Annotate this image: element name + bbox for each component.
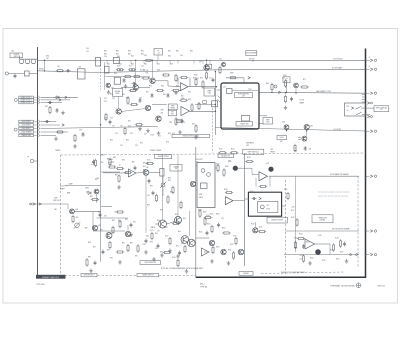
svg-text:R90: R90 (150, 242, 153, 244)
svg-text:R95: R95 (143, 170, 146, 172)
svg-text:C62: C62 (219, 59, 222, 61)
svg-text:R40: R40 (119, 64, 122, 66)
svg-text:R95: R95 (168, 178, 171, 180)
svg-text:R87: R87 (88, 257, 91, 259)
svg-text:R90: R90 (176, 246, 179, 248)
wire q110 out (238, 167, 252, 169)
svg-text:R56: R56 (166, 142, 169, 144)
capacitor C155 (206, 231, 209, 236)
connector arrow sw a (367, 102, 369, 105)
svg-text:270K: 270K (181, 98, 184, 100)
svg-text:C31: C31 (57, 66, 60, 68)
resistor R173 (199, 209, 201, 217)
wire miller vertical net (100, 97, 102, 262)
pin bus 131.2 (374, 130, 376, 132)
ground (194, 135, 198, 139)
transistor Q46 (116, 109, 121, 114)
resistor R71 (284, 79, 286, 87)
svg-text:3-12: 3-12 (86, 51, 89, 53)
svg-text:R95: R95 (165, 227, 168, 229)
capacitor C120 (302, 244, 305, 249)
svg-text:C45: C45 (209, 78, 212, 80)
net label box supply4 (19, 130, 34, 133)
svg-text:R104: R104 (228, 250, 232, 252)
svg-text:+12V: +12V (299, 255, 302, 257)
svg-text:C55: C55 (135, 145, 138, 147)
wire stub (209, 60, 211, 63)
junction bus (365, 230, 367, 232)
resistor R101 (218, 152, 226, 154)
ground (160, 253, 164, 257)
svg-text:R123: R123 (335, 238, 339, 240)
svg-text:C90: C90 (221, 218, 224, 220)
transistor Q47 (145, 105, 150, 110)
resistor R176b (175, 117, 177, 125)
svg-text:SWP TIMING SW: SWP TIMING SW (145, 262, 157, 264)
svg-text:Q85: Q85 (75, 209, 78, 211)
resistor R180 (163, 251, 171, 253)
wire q70 emitter (295, 88, 297, 93)
wire pin stub (366, 92, 370, 94)
resistor R105 (211, 225, 213, 233)
svg-text:TYPE 3B4: TYPE 3B4 (36, 284, 44, 286)
svg-text:INPUT: INPUT (14, 56, 19, 58)
svg-text:SWEEP: SWEEP (243, 273, 248, 275)
svg-text:C97: C97 (157, 231, 160, 233)
wire gnd row (41, 135, 57, 137)
capacitor C85 (92, 160, 95, 165)
resistor R121 (294, 241, 296, 249)
wire EXT HORIZ net (38, 59, 366, 61)
svg-text:R95: R95 (183, 218, 186, 220)
pin trig (30, 203, 32, 205)
wire sweep no.1 (41, 96, 79, 98)
svg-text:R40: R40 (116, 54, 119, 56)
svg-text:R104: R104 (204, 252, 208, 254)
svg-text:R91: R91 (122, 243, 125, 245)
wire stub (202, 60, 204, 63)
op-amp U45 (181, 107, 190, 116)
diode CR35 (56, 96, 59, 99)
svg-text:MANUALSLIB COM ENGINE: MANUALSLIB COM ENGINE (318, 195, 348, 198)
svg-text:R68: R68 (266, 83, 269, 85)
junction w2c (143, 69, 144, 70)
resistor R57 (135, 124, 143, 126)
capacitor C89 (102, 250, 105, 255)
svg-text:C95: C95 (147, 195, 150, 197)
svg-text:R87: R87 (115, 175, 118, 177)
test point box TP45 (206, 64, 212, 68)
pin sw b (371, 116, 373, 118)
resistor R178 (119, 220, 121, 228)
svg-text:R107: R107 (230, 244, 234, 246)
wire u45 out (190, 110, 216, 112)
wire label stub c2 (34, 124, 37, 126)
wire gate return (66, 184, 101, 186)
wire q87 base feed (92, 211, 94, 230)
transistor Q85b (302, 136, 307, 141)
svg-text:5K: 5K (347, 110, 349, 112)
capacitor C45 (212, 78, 215, 83)
connector arrow pin (370, 92, 372, 95)
svg-text:PICK: PICK (267, 208, 271, 210)
transistor Q50 (222, 63, 226, 67)
svg-text:HOLDOFF: HOLDOFF (334, 129, 341, 131)
resistor R63 (229, 77, 237, 79)
connector arrow sw b (367, 115, 369, 118)
capacitor C156 (151, 93, 154, 98)
resistor R107 (232, 251, 234, 259)
resistor R50 feedback (180, 76, 188, 78)
svg-text:R95: R95 (150, 186, 153, 188)
svg-text:R117: R117 (291, 210, 295, 212)
svg-text:SWEEP TIMING: SWEEP TIMING (158, 156, 170, 158)
net label box supply1 (19, 120, 34, 123)
label box horiz display (374, 106, 389, 112)
wire dashed boundary bottom b (98, 275, 138, 277)
svg-text:TIMING SW: TIMING SW (240, 123, 249, 125)
label box integrating (235, 93, 253, 98)
wire u85 out (136, 172, 143, 175)
junction w2a (119, 69, 120, 70)
wire fb2 a (255, 178, 257, 187)
label box sweep timing (155, 155, 172, 159)
module box SWEEP GATE (197, 163, 215, 208)
svg-text:1K: 1K (119, 165, 121, 167)
wire dashed amp boundary left (285, 180, 287, 274)
svg-text:R120: R120 (310, 258, 314, 260)
resistor R103 (225, 191, 233, 193)
svg-text:R40: R40 (117, 56, 120, 58)
svg-text:TP: TP (285, 78, 287, 80)
svg-text:R90: R90 (135, 256, 138, 258)
transistor V95b tube (188, 239, 196, 247)
svg-text:R40: R40 (168, 51, 171, 53)
resistor R153 (124, 171, 132, 173)
hook arrows group C (38, 120, 39, 137)
resistor R90 (116, 251, 124, 253)
svg-text:47K: 47K (104, 216, 107, 218)
op-amp U40 (180, 83, 188, 91)
svg-text:Q110: Q110 (228, 161, 232, 163)
svg-text:R95: R95 (178, 231, 181, 233)
wire stub (169, 60, 171, 63)
resistor R118 (296, 218, 298, 226)
hook arrows group B (38, 96, 39, 104)
svg-text:R40: R40 (176, 51, 179, 53)
svg-text:C55: C55 (120, 126, 123, 128)
resistor R47 (133, 76, 141, 78)
transistor Q42 (106, 83, 110, 87)
svg-text:R90: R90 (98, 212, 101, 214)
resistor R154 (118, 174, 120, 182)
ground (176, 254, 180, 258)
svg-text:R174: R174 (210, 214, 214, 216)
attenuator box AT31 (78, 69, 86, 79)
svg-text:C55: C55 (112, 126, 115, 128)
svg-text:TP: TP (294, 148, 296, 150)
junction wire2 corner (215, 71, 216, 72)
ground (168, 249, 172, 253)
label box timing sw (236, 122, 253, 127)
pin circle group C (14, 128, 17, 131)
resistor R106 (222, 232, 230, 234)
resistor box R45 (114, 77, 120, 84)
svg-text:+100V SUPPLY: +100V SUPPLY (21, 121, 31, 123)
label box swp gen (243, 149, 264, 154)
svg-text:J30: J30 (11, 51, 14, 53)
svg-text:C80: C80 (101, 162, 104, 164)
transistor V96 tube (175, 217, 182, 224)
junction J15 (286, 130, 287, 131)
junction J1 (44, 60, 45, 61)
wire to v95 (155, 223, 158, 225)
transistor Q121 (238, 249, 244, 255)
svg-text:R95: R95 (155, 233, 158, 235)
net label box SWEEP NO.2 (19, 99, 34, 102)
ground (210, 259, 214, 263)
svg-text:R40: R40 (190, 51, 193, 53)
wire dashed boundary left (60, 155, 62, 276)
transistor Q83 (284, 125, 289, 130)
capacitor C36 (56, 108, 59, 113)
wire dashed input boundary (100, 58, 102, 90)
resistor R172 (169, 237, 171, 245)
svg-text:R87: R87 (107, 250, 110, 252)
op-amp U90 (225, 197, 233, 205)
wire q43 base (121, 86, 133, 88)
pin out a (350, 254, 352, 256)
svg-text:SRS 564: SRS 564 (378, 285, 385, 287)
ground (227, 261, 231, 265)
pin bus 60.3 (374, 59, 376, 61)
resistor R32 (56, 70, 64, 72)
svg-text:R120: R120 (340, 252, 344, 254)
capacitor C39 (82, 132, 85, 137)
wire tp stem b (157, 55, 159, 60)
svg-text:R55: R55 (126, 98, 129, 100)
wire FAST RAMP to CRT (260, 91, 366, 94)
wire into u110 (252, 173, 259, 175)
wire label stub c3 (34, 128, 37, 130)
trimmer box C40 (96, 58, 101, 67)
wire pin stub (366, 130, 370, 132)
resistor R162 (156, 89, 164, 91)
svg-text:R104: R104 (216, 247, 220, 249)
svg-text:R85: R85 (110, 159, 113, 161)
ground (157, 131, 161, 135)
junction J2 (44, 70, 45, 71)
svg-text:Q45: Q45 (199, 61, 202, 63)
wire dashed amp boundary right (357, 176, 359, 268)
svg-text:SW30: SW30 (39, 69, 44, 71)
svg-text:U120: U120 (318, 235, 322, 237)
switch label box SW45a (168, 104, 177, 110)
svg-text:R120: R120 (294, 248, 298, 250)
svg-text:R87: R87 (85, 228, 88, 230)
wire +100V (41, 121, 57, 123)
transistor Q70 (294, 83, 299, 88)
attenuator box AT30 (25, 71, 30, 76)
svg-text:Q87: Q87 (98, 225, 101, 227)
svg-text:R56: R56 (188, 92, 191, 94)
wire gate vertical net (214, 72, 216, 136)
wire -150V long (41, 127, 159, 129)
label box holdoff (277, 135, 287, 139)
wire to opamp (168, 85, 180, 88)
svg-text:HOLDOFF: HOLDOFF (60, 186, 67, 188)
resistor R166 (202, 80, 204, 88)
resistor R179 (137, 244, 139, 252)
wire dly stub a (245, 198, 249, 200)
relay box K45 (212, 101, 218, 107)
svg-text:R104: R104 (203, 212, 207, 214)
neon box B67 (242, 116, 250, 122)
wire q45 collector (206, 60, 208, 65)
wire fb right (189, 78, 191, 87)
wire q88 stub (127, 225, 129, 231)
svg-text:Q84: Q84 (310, 125, 313, 127)
svg-text:R90: R90 (110, 258, 113, 260)
junction bus (365, 60, 367, 62)
resistor R164 (195, 124, 197, 132)
resistor R125 (235, 237, 237, 245)
label box swp len (263, 118, 273, 125)
resistor R59 (198, 102, 200, 110)
capacitor box C58 (203, 101, 207, 104)
wire miller out b (260, 115, 268, 117)
connector arrow trig b (39, 203, 41, 206)
svg-text:R87: R87 (90, 196, 93, 198)
svg-text:R170: R170 (147, 160, 151, 162)
capacitor C158 (145, 239, 148, 244)
potentiometer R96 (160, 182, 166, 188)
svg-text:R47: R47 (140, 70, 143, 72)
svg-text:R58: R58 (181, 96, 184, 98)
ground (61, 111, 65, 115)
wire 6.3VAC (41, 131, 69, 133)
resistor R52 (205, 71, 207, 79)
svg-text:R40: R40 (170, 64, 173, 66)
wire dashed boundary bottom c (159, 275, 196, 277)
capacitor C92 (94, 261, 97, 266)
svg-text:R87: R87 (107, 159, 110, 161)
ground (185, 269, 189, 273)
svg-text:SWP: SWP (199, 194, 202, 196)
transistor Q108 (253, 228, 258, 233)
wire u90 out (233, 200, 245, 202)
svg-text:R93: R93 (76, 217, 79, 219)
resistor R160 (172, 222, 180, 224)
svg-text:SWP: SWP (266, 119, 270, 121)
wire q95 feed (189, 211, 191, 236)
svg-text:R40: R40 (128, 51, 131, 53)
resistor R48 (162, 74, 170, 76)
capacitor C31 (66, 69, 71, 72)
capacitor C178 (130, 223, 133, 228)
resistor R168 (223, 168, 225, 176)
resistor R169 (108, 166, 116, 168)
svg-text:+100V: +100V (91, 164, 95, 166)
svg-text:R57: R57 (128, 121, 131, 123)
transistor Q110 (filled) (233, 166, 238, 171)
svg-text:R126: R126 (259, 227, 263, 229)
transistor Q90 (209, 240, 214, 245)
connector arrow pin (370, 59, 372, 62)
resistor R111 feedback (259, 185, 267, 187)
svg-text:R56: R56 (200, 78, 203, 80)
svg-text:R40: R40 (122, 94, 125, 96)
transistor Q48 (156, 116, 161, 121)
svg-text:C55: C55 (172, 133, 175, 135)
capacitor C38 (45, 120, 50, 123)
svg-text:TIMING SWITCH: TIMING SWITCH (142, 275, 154, 277)
connector arrow +225 (62, 124, 64, 127)
svg-text:C84: C84 (309, 148, 312, 150)
resistor R171 (151, 232, 153, 240)
svg-text:R104: R104 (199, 232, 203, 234)
wire center vertical net (195, 147, 197, 277)
resistor R120 (297, 237, 305, 239)
module box MILLER INTEGRATOR (221, 83, 259, 129)
capacitor C115 (252, 197, 257, 200)
wire tp stub (34, 160, 38, 162)
net label box supply3 (19, 127, 34, 130)
wire box stub a (196, 165, 197, 167)
svg-text:C55: C55 (158, 136, 161, 138)
net left boundary line (37, 47, 39, 275)
transistor Q44 (150, 78, 155, 83)
svg-text:C55: C55 (139, 98, 142, 100)
wire miller in (217, 89, 222, 91)
ground (124, 84, 128, 88)
svg-text:SWP GEN NO.1: SWP GEN NO.1 (84, 275, 95, 277)
wire miller out c (260, 123, 264, 125)
svg-text:R40: R40 (157, 64, 160, 66)
svg-text:R120: R120 (306, 242, 310, 244)
transistor Q87 (92, 225, 97, 230)
svg-text:R45: R45 (114, 73, 117, 75)
resistor R157 (116, 211, 124, 213)
transistor Q88 (125, 231, 130, 236)
svg-text:R52: R52 (196, 78, 199, 80)
ground (118, 260, 122, 264)
junction J8 (215, 111, 216, 112)
svg-text:C55: C55 (104, 118, 107, 120)
ground (89, 269, 93, 273)
resistor R98 (167, 195, 169, 203)
svg-text:R87: R87 (130, 243, 133, 245)
wire delay vertical net (244, 153, 246, 266)
svg-text:R90: R90 (160, 252, 163, 254)
label box miller ckt (218, 154, 234, 158)
pin ladder marks (362, 95, 365, 103)
wire u120 out (315, 243, 331, 245)
svg-text:R177: R177 (129, 66, 133, 68)
wire gate drive b (196, 237, 209, 239)
wire q43-q44 (138, 86, 149, 88)
svg-text:R59: R59 (188, 99, 191, 101)
svg-text:R89: R89 (88, 242, 91, 244)
svg-text:C55: C55 (144, 134, 147, 136)
wire q46 collector (118, 97, 120, 109)
ground (152, 257, 156, 261)
resistor R58 (191, 103, 193, 111)
resistor R100 (177, 259, 179, 267)
svg-text:R48: R48 (157, 70, 160, 72)
resistor R84 (294, 144, 296, 152)
svg-text:SWP GEN NO.2: SWP GEN NO.2 (247, 151, 259, 153)
